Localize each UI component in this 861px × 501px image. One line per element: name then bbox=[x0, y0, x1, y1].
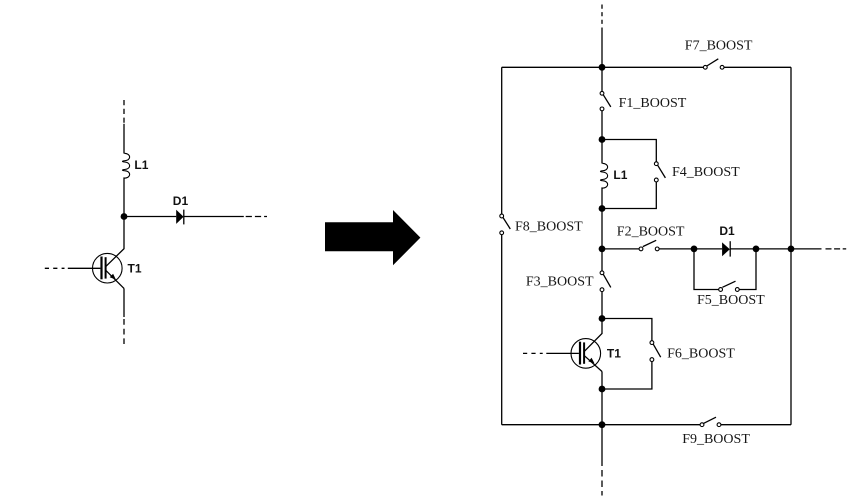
wire: emitter lead down (right) bbox=[601, 372, 603, 390]
wire: bottom lead below rail bbox=[601, 425, 603, 466]
wire: left edge upper segment bbox=[501, 67, 503, 214]
wire: inductor to bottom node bbox=[601, 187, 603, 208]
switch F3_BOOST bbox=[600, 271, 611, 292]
wire: right edge of box bbox=[790, 67, 792, 424]
wire: dashed output stub (right) bbox=[826, 248, 847, 250]
switch F7_BOOST bbox=[703, 59, 724, 69]
wire: left edge lower segment bbox=[501, 235, 503, 425]
inductor L1 (left) bbox=[122, 153, 129, 178]
wire: emitter node to bottom rail bbox=[601, 389, 603, 425]
svg-text:D1: D1 bbox=[719, 224, 735, 238]
wire: collector lead into T1 (right) bbox=[585, 319, 603, 352]
wire: left circuit top dashed lead bbox=[123, 100, 125, 124]
wire: node to inductor bbox=[601, 140, 603, 164]
node: bottom of T1 parallel pair bbox=[599, 386, 606, 393]
wire: F5 branch right rise bbox=[739, 249, 756, 290]
wire: bottom dashed lead (left) bbox=[123, 319, 125, 344]
wire: F6 branch upper bbox=[602, 319, 652, 341]
wire: base dashed stub (left) bbox=[45, 267, 65, 269]
wire: F5 branch left drop bbox=[694, 249, 719, 290]
wire: base lead solid (right) bbox=[546, 352, 579, 354]
wire: F3 to T1 collector node bbox=[601, 292, 603, 319]
wire: bottom edge right segment bbox=[721, 424, 791, 426]
wire: node to diode bbox=[694, 248, 722, 250]
node: D1 cathode junction bbox=[753, 246, 760, 253]
node: top of T1 parallel pair bbox=[599, 315, 606, 322]
wire: top edge left segment bbox=[502, 66, 704, 68]
wire: inductor to node bbox=[123, 177, 125, 216]
wire: top edge right segment bbox=[724, 66, 791, 68]
transistor T1 (right) bbox=[571, 339, 601, 369]
wire: base lead solid (left) bbox=[68, 267, 101, 269]
wire: F2 to diode node bbox=[659, 248, 694, 250]
wire: F1 to node bbox=[601, 111, 603, 140]
node: left circuit junction bbox=[121, 213, 128, 220]
node: output at right edge bbox=[788, 246, 795, 253]
wire: F4 branch upper bbox=[602, 140, 656, 162]
node: D1 anode junction bbox=[691, 246, 698, 253]
switch F8_BOOST bbox=[500, 214, 510, 235]
wire: collector lead into T1 (left) bbox=[106, 217, 124, 267]
svg-text:F2_BOOST: F2_BOOST bbox=[617, 225, 685, 240]
wire: emitter diagonal with arrow (right) bbox=[585, 356, 603, 372]
node: F2 tap junction bbox=[599, 246, 606, 253]
wire: output line beyond box bbox=[791, 248, 822, 250]
wire: bottom edge left segment bbox=[502, 424, 700, 426]
wire: emitter lead down (left) bbox=[123, 288, 125, 317]
wire: emitter diagonal with arrow (left) bbox=[106, 271, 124, 289]
wire: right circuit top lead bbox=[601, 28, 603, 68]
wire: F4 branch lower bbox=[602, 182, 656, 209]
wire: right circuit top dashed lead bbox=[601, 5, 603, 26]
svg-text:F5_BOOST: F5_BOOST bbox=[697, 293, 765, 308]
svg-text:F7_BOOST: F7_BOOST bbox=[685, 38, 753, 53]
inductor L1 (right) bbox=[600, 163, 607, 188]
wire: node to F2 switch bbox=[602, 248, 639, 250]
svg-text:T1: T1 bbox=[128, 261, 142, 275]
switch F4_BOOST bbox=[654, 162, 665, 182]
node: top rail junction bbox=[599, 64, 606, 71]
svg-text:D1: D1 bbox=[173, 194, 189, 208]
svg-text:L1: L1 bbox=[613, 168, 627, 182]
wire: diode cathode to node bbox=[730, 248, 756, 250]
switch F2_BOOST bbox=[639, 240, 659, 251]
wire: node to diode anode bbox=[124, 216, 176, 218]
wire: left circuit top lead bbox=[123, 124, 125, 154]
svg-text:F6_BOOST: F6_BOOST bbox=[667, 346, 735, 361]
wire: F6 branch lower bbox=[602, 362, 652, 389]
svg-text:F9_BOOST: F9_BOOST bbox=[682, 432, 750, 447]
svg-text:F3_BOOST: F3_BOOST bbox=[526, 274, 594, 289]
switch F9_BOOST bbox=[700, 417, 721, 426]
diode D1 (left) bbox=[176, 210, 184, 225]
switch F5_BOOST bbox=[719, 281, 740, 291]
wire: main rail node to F2 node bbox=[601, 209, 603, 249]
wire: bottom dashed lead (right) bbox=[601, 470, 603, 496]
node: top of L1 parallel pair bbox=[599, 136, 606, 143]
wire: base dashed stub (right) bbox=[523, 352, 543, 354]
svg-text:F4_BOOST: F4_BOOST bbox=[672, 165, 740, 180]
wire: dashed output stub (left) bbox=[246, 216, 267, 218]
block arrow (transformation) bbox=[325, 210, 420, 265]
wire: main rail to F1 bbox=[601, 67, 603, 91]
svg-text:F8_BOOST: F8_BOOST bbox=[515, 219, 583, 234]
svg-text:F1_BOOST: F1_BOOST bbox=[619, 96, 687, 111]
transistor T1 (left) bbox=[93, 253, 123, 283]
svg-text:L1: L1 bbox=[134, 158, 148, 172]
wire: diode cathode out bbox=[184, 216, 244, 218]
node: bottom rail junction bbox=[599, 421, 606, 428]
wire: F2 node down to F3 bbox=[601, 249, 603, 271]
svg-text:T1: T1 bbox=[607, 347, 621, 361]
node: bottom of L1 parallel pair bbox=[599, 205, 606, 212]
switch F6_BOOST bbox=[650, 341, 661, 362]
wire: node to right edge bbox=[756, 248, 791, 250]
switch F1_BOOST bbox=[600, 91, 611, 110]
diode D1 (right) bbox=[722, 241, 730, 256]
